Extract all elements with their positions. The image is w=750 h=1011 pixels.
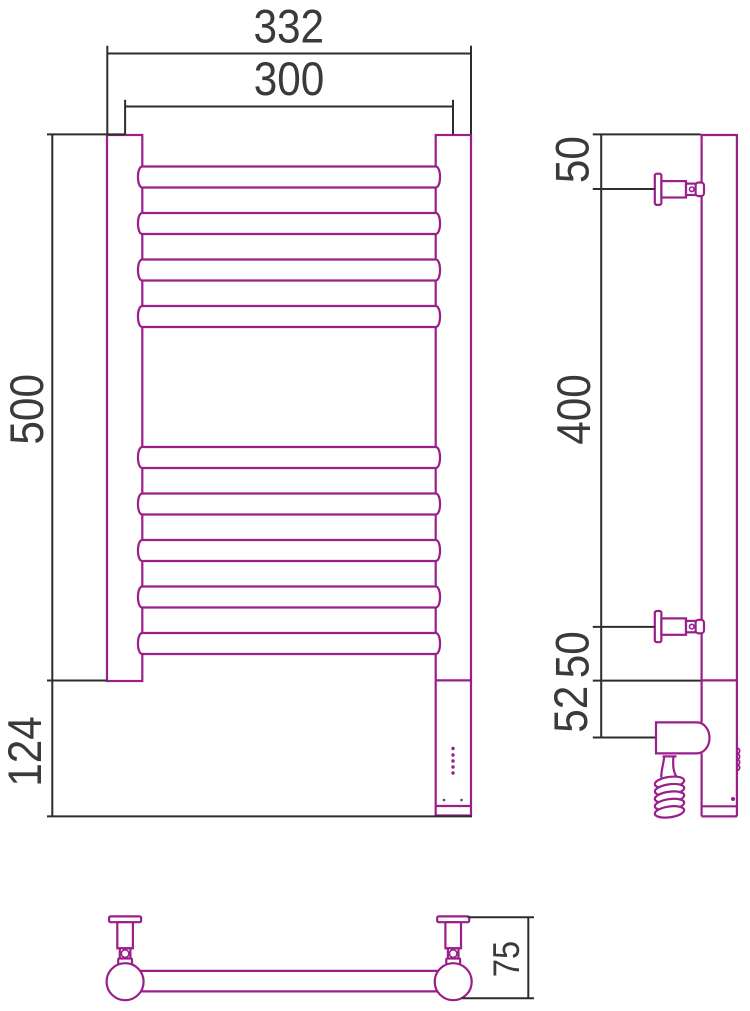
svg-text:124: 124 <box>0 716 52 787</box>
svg-text:75: 75 <box>486 941 527 977</box>
svg-text:332: 332 <box>254 1 325 53</box>
svg-text:50: 50 <box>547 631 599 678</box>
svg-text:50: 50 <box>548 136 600 183</box>
svg-text:500: 500 <box>2 374 54 445</box>
svg-text:400: 400 <box>549 374 601 445</box>
svg-text:52: 52 <box>546 686 598 733</box>
svg-text:300: 300 <box>254 54 325 106</box>
